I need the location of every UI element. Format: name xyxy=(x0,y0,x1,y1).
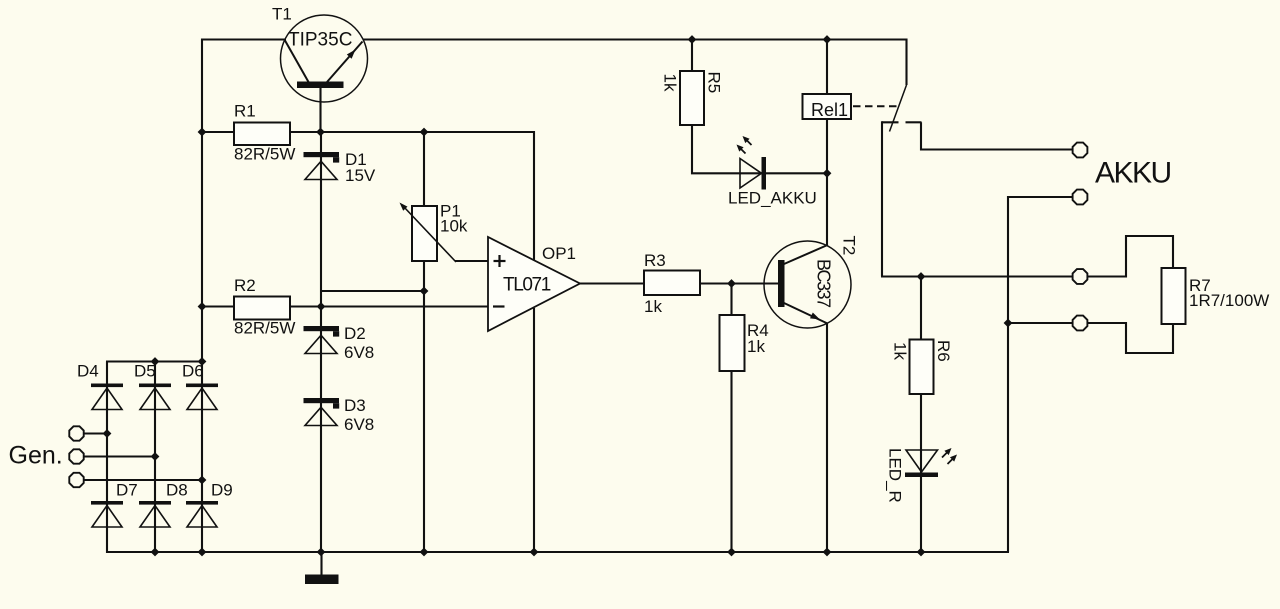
svg-text:R3: R3 xyxy=(644,251,666,270)
generator terminal 3 xyxy=(69,473,83,487)
svg-text:1k: 1k xyxy=(644,297,662,316)
wire zener chain D1-D2-D3 vertical xyxy=(320,132,322,552)
transistor T1 TIP35C xyxy=(272,5,368,103)
diode D8 xyxy=(139,481,188,528)
junction ground rail zener node xyxy=(317,548,326,557)
wire R2 to op-amp inverting input xyxy=(289,305,488,307)
junction ground rail LED_R node xyxy=(917,548,926,557)
resistor R3 1k xyxy=(644,251,700,316)
wire P1 wiper to non-inverting input xyxy=(455,260,489,262)
zener diode D2 6V8 xyxy=(304,324,375,362)
ground symbol xyxy=(305,552,339,584)
junction ground rail D5 node xyxy=(151,548,160,557)
junction bridge rail D5 node xyxy=(151,357,160,366)
wire AKKU terminal 2 to ground rail xyxy=(1008,197,1072,552)
junction ground rail R4 node xyxy=(727,548,736,557)
resistor R6 1k xyxy=(891,340,954,395)
junction gen phase2 node xyxy=(151,452,160,461)
wire sense node row to AKKU terminal 3 xyxy=(881,275,1072,277)
generator terminal 1 xyxy=(69,426,83,440)
wire AKKU terminal 4 row xyxy=(1008,322,1072,324)
resistor R4 1k xyxy=(720,315,769,371)
junction R3/R4/T2 base node xyxy=(727,279,736,288)
wire relay contact bar xyxy=(882,121,899,123)
svg-text:R5: R5 xyxy=(705,72,724,94)
wire op-amp output to R3 xyxy=(579,282,644,284)
zener diode D3 6V8 xyxy=(304,396,375,434)
relay actuation dashed link xyxy=(853,105,897,107)
junction R1 left node xyxy=(198,128,207,137)
junction R5 top node xyxy=(688,35,697,44)
wire R3 to T2 base xyxy=(700,282,779,284)
svg-text:D9: D9 xyxy=(211,481,233,500)
wire T1 base lead xyxy=(319,87,321,132)
wire R5 branch and LED_AKKU row xyxy=(692,39,827,173)
svg-text:1k: 1k xyxy=(661,74,680,92)
svg-text:T1: T1 xyxy=(272,5,292,24)
junction AKKU terminal 4 node xyxy=(1004,319,1013,328)
wire top supply rail from T1 emitter to relay/switch xyxy=(363,40,907,86)
junction ground rail op-amp node xyxy=(530,548,539,557)
svg-text:R6: R6 xyxy=(934,340,953,362)
wire generator phase 1 lead xyxy=(84,432,107,434)
zener diode D1 15V xyxy=(304,150,376,185)
AKKU connector terminal 2 xyxy=(1073,190,1088,205)
svg-text:1k: 1k xyxy=(891,342,910,360)
wire R4 branch vertical xyxy=(730,284,732,553)
wire T2 emitter to ground rail xyxy=(826,323,828,553)
junction bridge rail D6 node xyxy=(198,357,207,366)
svg-text:D8: D8 xyxy=(166,481,188,500)
svg-text:82R/5W: 82R/5W xyxy=(234,145,295,164)
svg-text:Rel1: Rel1 xyxy=(811,100,848,120)
junction R6 top sense node xyxy=(917,272,926,281)
junction ground rail T2 node xyxy=(823,548,832,557)
svg-text:TL071: TL071 xyxy=(503,275,551,296)
wire left input rail xyxy=(201,39,203,362)
diode D6 xyxy=(182,362,218,410)
junction LED_AKKU / relay node xyxy=(823,169,832,178)
svg-text:AKKU: AKKU xyxy=(1095,157,1171,190)
wire R6 / LED_R branch vertical xyxy=(920,276,922,553)
svg-text:D4: D4 xyxy=(77,362,99,381)
svg-text:6V8: 6V8 xyxy=(344,415,374,434)
svg-text:1R7/100W: 1R7/100W xyxy=(1189,291,1269,310)
svg-text:R1: R1 xyxy=(234,102,256,121)
wire R7 bottom link from terminal 4 xyxy=(1088,323,1173,353)
svg-text:D7: D7 xyxy=(116,481,138,500)
LED LED_R xyxy=(886,448,958,503)
resistor R1 82R/5W xyxy=(234,102,295,164)
wire contact leg down to sense node xyxy=(881,121,883,276)
wire bridge column D4/D7 xyxy=(106,362,108,554)
wire generator phase 3 lead xyxy=(84,479,202,481)
wire bottom ground rail xyxy=(106,551,1009,553)
svg-text:82R/5W: 82R/5W xyxy=(234,319,295,338)
wire zener node to P1 bottom (y=291 link) xyxy=(321,290,424,292)
resistor R5 1k xyxy=(661,71,724,125)
generator terminal 2 xyxy=(69,449,83,463)
svg-text:BC337: BC337 xyxy=(814,259,834,308)
wire contact to AKKU terminal 1 xyxy=(921,122,1072,149)
AKKU connector terminal 4 xyxy=(1073,316,1088,331)
svg-text:T2: T2 xyxy=(840,236,859,256)
wire P1 branch vertical xyxy=(423,131,425,206)
resistor R7 1R7/100W xyxy=(1162,268,1270,324)
resistor R2 82R/5W xyxy=(234,276,295,338)
potentiometer P1 10k xyxy=(400,202,468,263)
diode D9 xyxy=(186,481,233,528)
junction R1 right / T1 base node xyxy=(316,128,325,137)
relay switch arm xyxy=(890,85,907,132)
junction P1 bottom node xyxy=(420,287,429,296)
junction gen phase1 node xyxy=(103,429,112,438)
AKKU connector terminal 1 xyxy=(1073,143,1088,158)
wire op-amp supply drop x=534 xyxy=(533,131,535,260)
junction gen phase3 node xyxy=(198,476,207,485)
wire R1 right to op-amp supply corner xyxy=(290,131,535,133)
svg-text:R2: R2 xyxy=(234,276,256,295)
diode D7 xyxy=(91,481,138,528)
junction P1 top node xyxy=(420,128,429,137)
junction relay top node xyxy=(823,35,832,44)
wire bridge column D5/D8 xyxy=(154,362,156,554)
svg-text:OP1: OP1 xyxy=(542,244,576,263)
junction R2 left node xyxy=(198,302,207,311)
svg-text:LED_AKKU: LED_AKKU xyxy=(728,189,817,208)
svg-text:15V: 15V xyxy=(345,166,376,185)
svg-text:D5: D5 xyxy=(134,362,156,381)
diode D4 xyxy=(77,362,123,410)
wire top supply rail left of T1 xyxy=(202,38,286,40)
wire generator phase 2 lead xyxy=(84,455,155,457)
wire R7 top link from terminal 3 xyxy=(1088,236,1173,277)
wire node row R1 (base node) xyxy=(201,131,234,133)
wire bridge top rail xyxy=(106,360,203,362)
op-amp OP1 TL071 xyxy=(488,237,580,331)
wire bridge column D6/D9 xyxy=(201,362,203,554)
svg-text:10k: 10k xyxy=(440,217,468,236)
svg-text:TIP35C: TIP35C xyxy=(288,30,352,51)
svg-text:D3: D3 xyxy=(344,396,366,415)
svg-text:6V8: 6V8 xyxy=(344,343,374,362)
svg-text:1k: 1k xyxy=(747,337,765,356)
wire relay coil / T2 collector vertical xyxy=(826,39,828,246)
junction R2 right / D2 node xyxy=(317,302,326,311)
diode D5 xyxy=(134,362,171,410)
svg-text:LED_R: LED_R xyxy=(886,448,905,503)
svg-text:D2: D2 xyxy=(344,324,366,343)
AKKU connector terminal 3 xyxy=(1073,269,1088,284)
relay coil Rel1 xyxy=(803,94,852,120)
wire node row R2 left xyxy=(201,305,234,307)
transistor T2 BC337 xyxy=(764,236,859,329)
LED LED_AKKU xyxy=(728,136,817,208)
svg-text:Gen.: Gen. xyxy=(9,442,63,470)
junction ground rail P1 node xyxy=(420,548,429,557)
junction ground rail D6 node xyxy=(198,548,207,557)
